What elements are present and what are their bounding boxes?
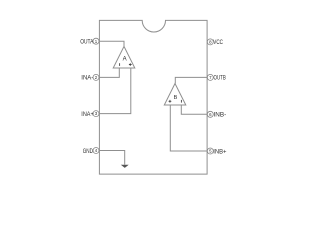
wire pin4 GND to ground symbol [99,151,124,165]
pin 8 VCC [207,39,223,46]
svg-text:VCC: VCC [213,39,223,46]
svg-text:OUTA: OUTA [80,39,94,46]
op-amp U1A [113,46,135,68]
wire pin3 INA+ to op-amp A non-inverting input [99,68,130,114]
pin 5 INB+ [207,148,226,156]
pin 7 OUTB [207,74,226,81]
svg-text:INA+: INA+ [81,111,94,118]
svg-text:OUTB: OUTB [214,75,226,82]
op-amp U1B [164,84,186,106]
wire pin1 OUTA to op-amp A output [99,41,124,46]
wire pin2 INA- to op-amp A inverting input [99,68,119,77]
wire pin6 INB- to op-amp B inverting input [181,105,207,114]
svg-text:B: B [174,95,178,101]
wire pin7 OUTB to op-amp B output [175,77,207,83]
IC body U1 (DIP-8 outline with top notch) [99,20,207,174]
svg-text:INB+: INB+ [213,149,226,156]
wire pin5 INB+ to op-amp B non-inverting input [170,105,207,151]
pin 2 INA- [81,74,99,81]
svg-text:INB-: INB- [214,112,227,119]
svg-text:GND: GND [83,148,94,155]
svg-text:A: A [123,57,127,63]
pin 6 INB- [207,111,226,118]
pin 1 OUTA [80,38,99,45]
svg-text:INA-: INA- [81,75,93,82]
pin 4 GND [83,148,99,155]
ground [121,165,129,168]
pin 3 INA+ [81,111,99,118]
